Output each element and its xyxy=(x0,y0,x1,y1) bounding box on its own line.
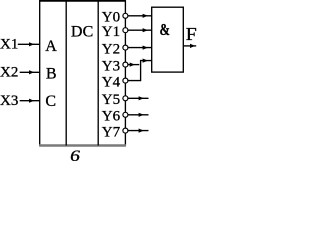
decoder U1 box left edge xyxy=(39,1,41,146)
inversion bubble Y1 xyxy=(123,28,128,33)
svg-text:DC: DC xyxy=(71,24,94,41)
wire X3 into C with arrowhead xyxy=(20,99,40,103)
decoder divider between address and DC sections xyxy=(65,1,67,146)
decoder U1 box right edge xyxy=(124,1,126,146)
svg-text:C: C xyxy=(45,93,56,110)
svg-text:B: B xyxy=(46,65,57,82)
decoder divider between DC and output sections xyxy=(97,1,99,146)
inversion bubble Y4 xyxy=(123,78,128,83)
inversion bubble Y6 xyxy=(123,112,128,117)
svg-text:F: F xyxy=(186,25,197,45)
svg-text:X1: X1 xyxy=(0,37,18,53)
wire gate output F with arrowhead xyxy=(183,44,196,48)
svg-text:X2: X2 xyxy=(0,65,18,81)
output label F xyxy=(186,25,197,45)
wire Y1 to gate input 2 xyxy=(128,28,152,32)
wire Y4 routed up to gate input 4 xyxy=(128,59,152,81)
inversion bubble Y2 xyxy=(123,45,128,50)
decoder U1 box top edge xyxy=(39,0,126,2)
wire Y0 to gate input 1 xyxy=(128,14,152,18)
wire X2 into B with arrowhead xyxy=(20,70,40,74)
stub arrow on unused output Y3 xyxy=(128,63,139,67)
AND gate U2 box xyxy=(152,7,184,72)
svg-text:Y1: Y1 xyxy=(102,24,120,40)
svg-text:Y7: Y7 xyxy=(102,124,121,140)
svg-text:6: 6 xyxy=(70,147,80,161)
stub arrow on unused output Y7 xyxy=(128,129,149,133)
stub arrow on unused output Y5 xyxy=(128,96,149,100)
svg-text:Y5: Y5 xyxy=(102,92,120,108)
inversion bubble Y5 xyxy=(123,96,128,101)
svg-text:X3: X3 xyxy=(0,93,18,109)
inversion bubble Y7 xyxy=(123,128,128,133)
decoder U1 box bottom edge (grey) xyxy=(39,144,126,146)
stub arrow on unused output Y6 xyxy=(128,113,149,117)
gate symbol & xyxy=(159,21,169,39)
inversion bubble Y0 xyxy=(123,13,128,18)
svg-text:Y6: Y6 xyxy=(102,109,121,125)
svg-text:&: & xyxy=(159,21,169,39)
svg-text:Y3: Y3 xyxy=(102,58,120,74)
inversion bubble Y3 xyxy=(123,62,128,67)
svg-text:Y4: Y4 xyxy=(102,74,121,90)
label 6 below box xyxy=(70,147,80,165)
wire Y2 to gate input 3 xyxy=(128,46,152,50)
svg-text:A: A xyxy=(45,38,57,55)
svg-text:Y2: Y2 xyxy=(102,41,120,57)
wire X1 into A with arrowhead xyxy=(18,42,40,46)
